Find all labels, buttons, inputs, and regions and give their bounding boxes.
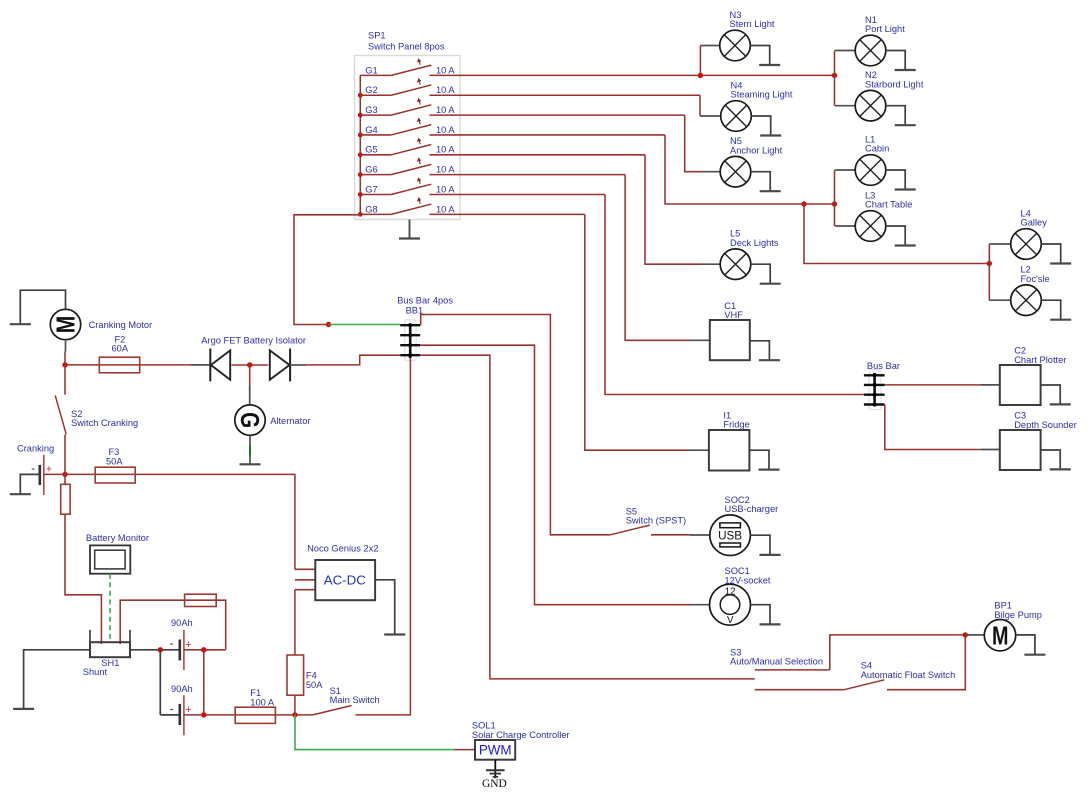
- label L2 Foc'sle: [1021, 265, 1050, 284]
- wire G5 output: [430, 154, 646, 156]
- svg-text:10 A: 10 A: [436, 125, 455, 135]
- label Bus Bar 4pos / BB1: [397, 295, 453, 315]
- svg-text:V: V: [727, 615, 734, 626]
- svg-text:Steaming Light: Steaming Light: [731, 90, 793, 100]
- lamp N2: [855, 90, 886, 121]
- wire net G5 to L5: [645, 155, 701, 264]
- pin N3 left: [700, 45, 719, 47]
- svg-text:100 A: 100 A: [250, 697, 275, 707]
- junction L1/L3: [832, 201, 837, 206]
- wire N1-N2 vertical: [834, 51, 836, 106]
- wire net G7 to bus bar: [605, 195, 864, 395]
- svg-text:50A: 50A: [106, 457, 123, 467]
- svg-text:USB: USB: [718, 528, 742, 542]
- svg-text:GND: GND: [482, 778, 507, 790]
- svg-text:G4: G4: [365, 125, 377, 135]
- wire battery minus vertical: [159, 650, 161, 715]
- wire F3 net to charger: [65, 474, 295, 569]
- ground charger: [375, 580, 405, 635]
- label F2 60A: [112, 335, 129, 354]
- lamp N4: [721, 101, 752, 132]
- lamp N3: [720, 30, 751, 61]
- switch G6 (breaker, 10 A): [360, 157, 431, 174]
- wire battery monitor sense (green dashed): [109, 574, 111, 642]
- pin BP1 left: [965, 634, 984, 636]
- alternator G1circ: [235, 405, 265, 435]
- motor BP1 Bilge Pump: [984, 620, 1015, 651]
- label C3 Depth Sounder: [1014, 411, 1077, 430]
- lamp N1: [855, 35, 886, 66]
- svg-text:Alternator: Alternator: [270, 416, 310, 426]
- svg-text:Galley: Galley: [1021, 218, 1048, 228]
- svg-text:Deck Lights: Deck Lights: [730, 238, 779, 248]
- box I1 Fridge: [709, 430, 750, 471]
- svg-text:90Ah: 90Ah: [171, 618, 193, 628]
- junction G1/N3: [698, 73, 703, 78]
- svg-text:Battery Monitor: Battery Monitor: [86, 533, 149, 543]
- pin L1 left: [835, 169, 855, 171]
- junction cranking battery: [62, 472, 67, 477]
- diode D1 (isolator left): [210, 349, 230, 382]
- svg-text:Cranking Motor: Cranking Motor: [89, 320, 153, 330]
- wire PWM to GND: [494, 760, 496, 779]
- wire solar stub: [454, 749, 475, 751]
- fuse battery sense: [185, 594, 217, 606]
- svg-text:AC-DC: AC-DC: [324, 572, 367, 587]
- wire green feed to BB1: [329, 324, 401, 326]
- label N3 Stern Light: [730, 10, 775, 29]
- label L3 Chart Table: [865, 191, 912, 210]
- label F3 50A: [106, 447, 123, 466]
- ground SP1: [399, 220, 420, 239]
- box C2 Chart Plotter: [1000, 365, 1041, 405]
- switch G7 (breaker, 10 A): [360, 177, 431, 194]
- pin diode D1 cathode: [191, 364, 210, 366]
- pin diode D2 cathode: [290, 364, 306, 366]
- svg-text:Port Light: Port Light: [865, 24, 905, 34]
- label S5 Switch (SPST): [626, 506, 686, 525]
- svg-text:Fridge: Fridge: [723, 420, 749, 430]
- svg-text:Bus Bar 4pos: Bus Bar 4pos: [397, 295, 453, 305]
- ground BP1: [1016, 635, 1045, 655]
- lamp L2: [1011, 285, 1042, 316]
- switch S1 blade: [313, 706, 352, 715]
- wire net G2 to N4: [699, 95, 701, 116]
- switch G3 (breaker, 10 A): [360, 98, 431, 115]
- junction F1/F4/solar: [292, 712, 297, 717]
- svg-text:G2: G2: [365, 85, 377, 95]
- svg-text:VHF: VHF: [724, 310, 743, 320]
- wire BB1 to SOC1: [420, 345, 690, 605]
- pin alternator top: [249, 385, 251, 405]
- wire SP1 feed from bus bar: [294, 215, 360, 325]
- label L1 Cabin: [865, 135, 889, 154]
- bus bar (instruments) outline: [869, 370, 881, 410]
- switch S5 blade: [610, 525, 650, 535]
- pin N5 left: [701, 171, 721, 173]
- wire branch to L4/L2: [804, 204, 989, 264]
- wire solar (green): [295, 715, 454, 750]
- wire bus bar to C2: [885, 384, 981, 386]
- svg-text:Noco Genius 2x2: Noco Genius 2x2: [307, 544, 378, 554]
- svg-text:G3: G3: [365, 105, 377, 115]
- svg-text:12V-socket: 12V-socket: [725, 575, 771, 585]
- junction L4/L2: [987, 261, 992, 266]
- svg-text:M: M: [53, 316, 81, 334]
- svg-text:10 A: 10 A: [436, 145, 455, 155]
- pin L2 left: [989, 299, 1010, 301]
- ground alternator: [240, 435, 261, 464]
- wire net G8 to I1: [585, 214, 689, 450]
- svg-text:Chart Table: Chart Table: [865, 200, 912, 210]
- svg-text:M: M: [992, 620, 1009, 650]
- motor M1 Cranking Motor: [50, 309, 80, 339]
- wire BB1 to S5: [421, 315, 611, 535]
- wire F4 to main junction: [294, 695, 296, 715]
- junction SP1 feed: [326, 322, 331, 327]
- battery BT2 90Ah: [180, 695, 184, 735]
- label C2 Chart Plotter: [1014, 346, 1066, 365]
- wire L1-L3 vertical: [834, 170, 836, 226]
- ground shunt: [13, 708, 34, 710]
- svg-text:90Ah: 90Ah: [171, 684, 193, 694]
- label L5 Deck Lights: [730, 229, 779, 248]
- wire F4 to charger pin3: [294, 590, 296, 655]
- label S3 Auto/Manual Selection: [730, 647, 823, 666]
- wire net G4 to cabin lights: [665, 135, 835, 204]
- label S1 Main Switch: [330, 686, 380, 705]
- junction isolator/alternator: [247, 362, 252, 367]
- wire to monitor fuse: [64, 474, 66, 484]
- wire net G3 to N5: [685, 115, 701, 172]
- svg-text:Argo FET Battery Isolator: Argo FET Battery Isolator: [201, 335, 306, 345]
- fuse F2 60A: [99, 357, 139, 373]
- svg-text:Cabin: Cabin: [865, 144, 889, 154]
- socket SOC1 12V-socket: [710, 584, 751, 626]
- lamp L4: [1011, 229, 1042, 260]
- ground cranking motor: [10, 290, 66, 324]
- wire isolator center: [232, 364, 269, 366]
- label N1 Port Light: [865, 15, 905, 34]
- svg-text:Shunt: Shunt: [83, 667, 108, 677]
- ground I1: [749, 450, 779, 469]
- battery monitor display: [90, 545, 130, 573]
- svg-text:G7: G7: [365, 184, 377, 194]
- wire G8 output: [430, 213, 585, 215]
- svg-text:Main Switch: Main Switch: [330, 695, 380, 705]
- svg-text:G8: G8: [365, 204, 377, 214]
- wire cranking battery minus to ground: [20, 474, 40, 494]
- label N4 Steaming Light: [731, 81, 793, 100]
- switch S3 Auto/Manual Selection: [755, 670, 844, 690]
- wire battery plus vertical: [203, 650, 205, 715]
- battery BT3 Cranking: [40, 455, 44, 495]
- wire net G6 to C1: [625, 175, 690, 341]
- label SH1 Shunt: [83, 658, 120, 677]
- svg-text:Switch Panel 8pos: Switch Panel 8pos: [368, 41, 445, 51]
- ground C2: [1041, 385, 1071, 404]
- svg-text:50A: 50A: [306, 680, 323, 690]
- svg-text:10 A: 10 A: [436, 105, 455, 115]
- pin L4 left: [989, 243, 1010, 245]
- bus bar (instruments): [864, 373, 885, 407]
- svg-text:Solar Charge Controller: Solar Charge Controller: [472, 730, 570, 740]
- wire BB1 to isolator: [306, 355, 400, 365]
- svg-text:Bilge Pump: Bilge Pump: [994, 610, 1042, 620]
- label SOC2 USB-charger: [725, 495, 779, 514]
- pin N4 left: [700, 115, 721, 117]
- wire bus bar to C3: [885, 405, 980, 450]
- junction net G4 branch: [801, 201, 806, 206]
- pin charger input 3: [295, 589, 315, 591]
- pin SOC1 left: [690, 604, 710, 606]
- wire G2 output: [430, 94, 701, 96]
- svg-text:G1: G1: [365, 65, 377, 75]
- switch G5 (breaker, 10 A): [360, 138, 431, 155]
- svg-text:Cranking: Cranking: [17, 443, 54, 453]
- wire battery sense: [120, 600, 226, 650]
- switch S4 blade: [844, 680, 884, 690]
- junction motor/F2/S2: [62, 362, 67, 367]
- svg-text:Switch Cranking: Switch Cranking: [71, 418, 138, 428]
- wire BT2 plus to F1 and S1: [184, 714, 313, 716]
- fuse F4 50A: [287, 655, 304, 695]
- wire BB1 to S3: [420, 355, 755, 679]
- wire G1 output: [430, 74, 835, 76]
- wire cranking battery plus: [44, 473, 65, 475]
- ground L4: [1041, 244, 1071, 264]
- label N5 Anchor Light: [730, 136, 783, 155]
- bus bar BB1: [400, 323, 420, 358]
- svg-text:Switch (SPST): Switch (SPST): [626, 516, 686, 526]
- svg-text:Foc'sle: Foc'sle: [1021, 274, 1050, 284]
- box C1 VHF: [710, 320, 750, 360]
- label F4 50A: [306, 671, 323, 690]
- svg-text:USB-charger: USB-charger: [725, 504, 779, 514]
- controller SOL1 PWM: [475, 740, 515, 760]
- label S4 Automatic Float Switch: [861, 661, 956, 680]
- wire G6 output: [430, 174, 626, 176]
- socket SOC2 USB-charger: [710, 515, 751, 556]
- junction battery minus bus: [158, 647, 163, 652]
- ground cranking battery: [10, 493, 31, 495]
- switch G4 (breaker, 10 A): [360, 118, 431, 135]
- label F1 100 A: [250, 688, 275, 707]
- wire G4 output: [430, 134, 665, 136]
- switch G2 (breaker, 10 A): [360, 78, 431, 95]
- fuse F3 50A: [95, 467, 135, 483]
- diode D2 (isolator right): [270, 349, 290, 382]
- wire S5 to SOC2: [651, 534, 690, 536]
- label I1 Fridge: [723, 410, 749, 429]
- lamp L1: [855, 155, 886, 186]
- wire net G1 riser to N3: [699, 46, 701, 76]
- svg-text:SP1: SP1: [368, 31, 386, 41]
- svg-text:Depth Sounder: Depth Sounder: [1014, 420, 1077, 430]
- battery BT1 90Ah: [180, 630, 184, 670]
- label C1 VHF: [724, 301, 743, 320]
- svg-text:10 A: 10 A: [436, 85, 455, 95]
- svg-text:12: 12: [725, 586, 736, 597]
- ground SOC1: [751, 605, 781, 625]
- svg-text:Auto/Manual Selection: Auto/Manual Selection: [730, 657, 823, 667]
- wire motor junction to S2: [64, 365, 66, 395]
- pin charger input 1: [295, 568, 315, 570]
- wire shunt to ground: [24, 650, 90, 709]
- svg-text:PWM: PWM: [479, 743, 512, 758]
- wire S1 to bus bar BB1: [355, 358, 410, 715]
- svg-text:10 A: 10 A: [436, 65, 455, 75]
- svg-text:Automatic Float Switch: Automatic Float Switch: [861, 670, 956, 680]
- wire S4 to bilge pump: [887, 635, 965, 690]
- wire monitor fuse to shunt: [65, 514, 101, 644]
- junction BP1: [963, 632, 968, 637]
- pin charger input 2: [295, 579, 315, 581]
- wire shunt to battery minus: [130, 649, 180, 651]
- pin C1 left: [691, 339, 711, 341]
- lamp N5: [720, 156, 751, 187]
- junction BT1 plus: [201, 647, 206, 652]
- svg-text:60A: 60A: [112, 344, 129, 354]
- wire S2 to battery: [64, 434, 66, 474]
- svg-text:-: -: [170, 703, 174, 715]
- wire L4-L2 vertical: [988, 244, 990, 300]
- svg-text:G5: G5: [365, 145, 377, 155]
- lamp L5: [720, 249, 751, 280]
- ground L5: [751, 264, 781, 284]
- ground GND (earth): [486, 770, 505, 777]
- switch G1 (breaker, 10 A): [360, 58, 431, 75]
- ground N3: [750, 46, 780, 66]
- pin SOC2 left: [690, 534, 710, 536]
- ground L1: [886, 170, 916, 190]
- charger U1 Noco Genius AC-DC: [315, 560, 375, 600]
- label BP1 Bilge Pump: [994, 601, 1042, 620]
- svg-text:Stern Light: Stern Light: [730, 19, 775, 29]
- label SOC1 12V-socket: [725, 566, 771, 585]
- switch G8 (breaker, 10 A): [360, 197, 431, 214]
- pin L5 left: [701, 263, 721, 265]
- fuse F1 100 A: [235, 707, 275, 723]
- ground L2: [1041, 300, 1071, 320]
- label S2 Switch Cranking: [71, 409, 138, 428]
- svg-text:Bus Bar: Bus Bar: [867, 361, 900, 371]
- wire SP1 left bus: [359, 75, 361, 214]
- fuse monitor (unlabeled): [61, 484, 70, 514]
- pin C3 left: [980, 449, 1000, 451]
- wire isolator to alternator: [249, 365, 251, 385]
- junctions SP1 left bus: [358, 93, 363, 217]
- ground C3: [1041, 450, 1071, 469]
- ground L3: [886, 226, 916, 246]
- svg-text:+: +: [46, 463, 52, 475]
- svg-text:G6: G6: [365, 165, 377, 175]
- bus bar BB1 outline: [405, 320, 416, 361]
- svg-text:10 A: 10 A: [436, 204, 455, 214]
- label SP1 / Switch Panel 8pos: [368, 31, 445, 52]
- ground N1: [886, 51, 916, 71]
- wire G7 output: [430, 194, 606, 196]
- svg-text:Chart Plotter: Chart Plotter: [1014, 355, 1066, 365]
- label SOL1 Solar Charge Controller: [472, 721, 570, 740]
- ground SOC2: [750, 535, 780, 555]
- wire motor to F2: [65, 352, 191, 365]
- pin N1 left: [835, 50, 855, 52]
- label L4 Galley: [1021, 209, 1048, 228]
- box C3 Depth Sounder: [1000, 430, 1041, 470]
- svg-text:-: -: [31, 463, 35, 475]
- label N2 Starbord Light: [865, 70, 924, 89]
- svg-text:10 A: 10 A: [436, 165, 455, 175]
- junction G1/N1-N2: [832, 73, 837, 78]
- switch panel SP1 outline: [355, 56, 461, 220]
- svg-text:10 A: 10 A: [436, 184, 455, 194]
- shunt SH1: [90, 630, 130, 657]
- wire BT1 plus: [184, 649, 226, 651]
- ground N2: [886, 106, 916, 126]
- ground N5: [751, 172, 781, 192]
- svg-text:G: G: [235, 412, 263, 428]
- wire S3 to bilge pump: [830, 635, 966, 670]
- svg-text:Starbord Light: Starbord Light: [865, 79, 924, 89]
- ground N4: [751, 116, 781, 136]
- wire G3 output: [430, 114, 685, 116]
- junction BT2 plus: [201, 712, 206, 717]
- pin I1 left: [689, 449, 709, 451]
- svg-text:-: -: [170, 638, 174, 650]
- svg-text:Anchor Light: Anchor Light: [730, 145, 783, 155]
- pin C2 left: [980, 384, 1000, 386]
- pin motor bottom: [65, 340, 67, 352]
- pin N2 left: [835, 105, 855, 107]
- ground C1: [750, 341, 780, 360]
- lamp L3: [855, 211, 886, 242]
- pin L3 left: [835, 225, 855, 227]
- wire to battery2 minus: [160, 714, 179, 716]
- switch S2 blade: [55, 395, 66, 434]
